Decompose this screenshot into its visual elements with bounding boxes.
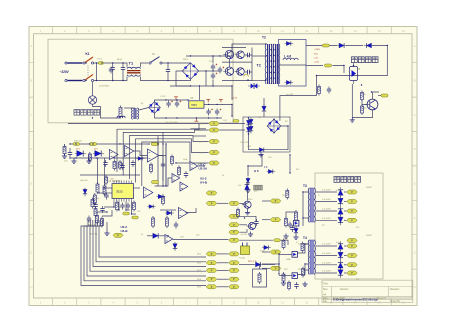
diode D15 bbox=[254, 262, 263, 267]
label K1 bbox=[86, 52, 90, 56]
wire bridge2 down bbox=[155, 113, 167, 118]
port mid-left 4 bbox=[209, 151, 219, 155]
svg-text:Drawn By:: Drawn By: bbox=[390, 300, 401, 303]
switch K2 contact b bbox=[160, 62, 162, 64]
label G 6 bbox=[254, 169, 259, 173]
text label 高压回路 (primary) bbox=[74, 110, 100, 116]
wire K2 to bridge bbox=[162, 62, 191, 64]
diode D18 bbox=[267, 169, 276, 173]
port center col 2 bbox=[229, 214, 239, 218]
diode D25 up bbox=[245, 182, 250, 191]
wire bus v extra3 bbox=[165, 144, 167, 186]
diode D23 bbox=[165, 211, 174, 215]
wire fuse out bbox=[104, 62, 125, 64]
diode output T3 4 bbox=[338, 215, 343, 225]
port bundle right 1 bbox=[229, 252, 239, 256]
wire bridge B1 neg bbox=[176, 71, 182, 86]
wire csnub top bbox=[167, 63, 169, 67]
wire out a3 bbox=[316, 210, 337, 212]
resistor R34 vertical bbox=[318, 85, 321, 96]
resistor R54 on wire bbox=[233, 120, 239, 123]
ground mid 2 bbox=[86, 159, 91, 164]
capacitor C25 bbox=[131, 160, 135, 167]
value label +15V bbox=[314, 62, 320, 64]
svg-text:0.1u 400V: 0.1u 400V bbox=[322, 253, 331, 255]
resistor R26 vertical bbox=[258, 272, 261, 284]
ground center bbox=[245, 188, 250, 193]
resistor R35 vertical bbox=[282, 272, 285, 283]
ground u3 area bbox=[104, 231, 109, 236]
wire T2 top tap bbox=[232, 44, 266, 56]
wire out b4 port bbox=[344, 272, 347, 274]
wire bridge bottom rail bbox=[176, 85, 232, 87]
port bundle left 1 bbox=[206, 252, 217, 256]
terminal circle top bbox=[65, 62, 67, 64]
label A 6 bbox=[0, 0, 1, 1]
value drv5 bbox=[286, 259, 292, 261]
wire col e1 bbox=[262, 200, 270, 202]
diode D7 bbox=[337, 43, 346, 48]
wire nest 2 bbox=[123, 130, 208, 176]
wire bottom net b bbox=[263, 264, 275, 266]
port feedback bottom bbox=[113, 233, 123, 237]
svg-text:KBPC: KBPC bbox=[183, 59, 189, 61]
rectifier block box bbox=[279, 40, 307, 87]
wire mid left drop bbox=[64, 144, 66, 147]
scattered value 17 bbox=[366, 187, 373, 189]
svg-text:+15V: +15V bbox=[314, 62, 320, 64]
net name bundle 1 bbox=[197, 254, 202, 256]
wire shunt left bbox=[306, 65, 323, 67]
wire matrix feed bbox=[263, 98, 265, 105]
wire mid rail long bbox=[68, 123, 209, 125]
wire bundle top 7 bbox=[99, 220, 102, 232]
wire sg left in2 bbox=[99, 192, 112, 194]
wire drop to sg a bbox=[97, 158, 99, 184]
op-amp U4-C bbox=[180, 182, 188, 191]
resistor R37 vertical bbox=[295, 210, 298, 222]
resistor R23 vertical bbox=[166, 216, 169, 228]
scattered value 14 bbox=[321, 282, 323, 284]
port bundle left 3 bbox=[206, 268, 217, 272]
resistor R30 bbox=[322, 44, 329, 47]
svg-text:Jun 4R7: Jun 4R7 bbox=[286, 94, 294, 96]
diode D10 bbox=[246, 119, 250, 128]
wire T3 tap2 bbox=[303, 217, 309, 219]
diode D24 bottom bbox=[151, 233, 161, 238]
ground matrix bbox=[258, 152, 263, 157]
svg-text:10k: 10k bbox=[238, 185, 241, 187]
label TL431 bbox=[239, 258, 246, 260]
net out a4 bbox=[322, 218, 331, 220]
transient suppressor VD1 bbox=[248, 83, 260, 89]
wire lamp down bbox=[93, 104, 121, 118]
wire bottom loop bbox=[253, 269, 267, 287]
net out a1 bbox=[322, 190, 331, 192]
wire rm net bbox=[286, 212, 296, 219]
zener diode ZD1 bbox=[75, 151, 86, 157]
label U2-2b bbox=[200, 177, 207, 181]
svg-text:Sheet of: Sheet of bbox=[377, 297, 386, 300]
value t1a bbox=[117, 59, 123, 61]
svg-text:0.1u 400V: 0.1u 400V bbox=[322, 199, 331, 201]
diode output T4 4 bbox=[338, 268, 343, 278]
wire bus v extra1 bbox=[157, 136, 159, 186]
capacitor C20 bbox=[174, 222, 178, 229]
net name bundle 4 bbox=[197, 279, 202, 281]
wire fb loop bbox=[148, 143, 151, 145]
wire bundle top 6 bbox=[96, 220, 100, 232]
svg-text:3525: 3525 bbox=[116, 190, 123, 194]
svg-text:D: D bbox=[414, 147, 416, 151]
net out b4 bbox=[322, 271, 331, 273]
net name mid 4 bbox=[199, 152, 204, 154]
label T3 bbox=[303, 184, 307, 188]
sub-circuit box: output high-voltage loop bbox=[315, 173, 383, 279]
wire bundle top 2 bbox=[84, 220, 90, 232]
wire bottom net a bbox=[239, 264, 254, 266]
svg-text:FR307: FR307 bbox=[366, 235, 373, 237]
transistor Q5 bbox=[292, 273, 297, 279]
capacitor C22 bbox=[288, 222, 292, 229]
wire opamp link bbox=[134, 151, 148, 156]
diode D14 bbox=[83, 188, 87, 197]
wire strip out2 bbox=[165, 144, 167, 186]
power port VCC bbox=[206, 99, 210, 102]
net out a3 bbox=[322, 209, 331, 211]
capacitor CX2 bbox=[109, 67, 113, 74]
capacitor C7 bbox=[215, 109, 221, 116]
resistor R2 vertical bbox=[119, 106, 122, 119]
capacitor C13 bbox=[327, 87, 331, 94]
title block bbox=[322, 280, 413, 303]
wire q1 q2 link bbox=[229, 59, 231, 67]
wire lamp loop bbox=[92, 82, 94, 96]
wire out a2 port bbox=[344, 201, 347, 203]
wire bundle top 3 bbox=[87, 220, 93, 232]
wire cx1 bottom bbox=[112, 72, 114, 81]
transformer T3 core bar bbox=[310, 188, 314, 222]
transformer T3 bbox=[308, 188, 315, 222]
resistor R20 vertical bbox=[162, 195, 165, 206]
value u4d3 bbox=[196, 235, 200, 237]
value q1 bbox=[232, 53, 238, 55]
diode D6 bbox=[285, 80, 294, 84]
wire bundle 6 bbox=[96, 232, 206, 262]
resistor R32 vertical bbox=[361, 91, 364, 102]
value gnd10k bbox=[80, 180, 88, 182]
wire matrix in1 bbox=[220, 123, 246, 125]
port bundle right 4 bbox=[229, 277, 239, 281]
resistor R31 bbox=[325, 64, 332, 67]
value drv4 bbox=[298, 269, 302, 271]
capacitor C14 bbox=[68, 150, 72, 157]
wire out b1 bbox=[316, 245, 337, 247]
diode D12 bbox=[258, 148, 267, 152]
svg-text:+310V: +310V bbox=[314, 49, 321, 51]
wire center drop bbox=[248, 155, 262, 176]
wire out b3 bbox=[316, 264, 337, 266]
wire mains bottom bbox=[67, 80, 82, 82]
scattered value 2 bbox=[258, 117, 261, 119]
wire matrix right bbox=[266, 126, 288, 150]
wire out b4 bbox=[316, 272, 337, 274]
svg-text:4n 10k: 4n 10k bbox=[241, 234, 247, 236]
label T2 bbox=[257, 63, 261, 67]
op-amp U1-D bbox=[190, 162, 198, 171]
port mid-left 2 bbox=[209, 128, 219, 132]
transistor Q7 bbox=[246, 222, 255, 230]
net name mid 3 bbox=[199, 141, 204, 143]
ground sensor bbox=[350, 117, 355, 122]
wire bundle 3 bbox=[87, 232, 206, 276]
label L1 4.6 bbox=[284, 55, 291, 59]
op-amp U4-A bbox=[172, 174, 180, 183]
wire mid rail top bbox=[70, 143, 150, 145]
svg-text:U4-B: U4-B bbox=[121, 229, 129, 233]
diode D21 bbox=[262, 245, 271, 249]
wire sg pin net4 bbox=[132, 202, 137, 215]
port col e 1 bbox=[270, 199, 281, 203]
label ~220V bbox=[60, 70, 70, 74]
wire bundle link 1 bbox=[217, 253, 229, 255]
port output b1 bbox=[347, 244, 357, 248]
port output b3 bbox=[347, 263, 357, 267]
resistor R53 vertical bbox=[119, 160, 122, 170]
svg-text:470u: 470u bbox=[209, 61, 213, 63]
svg-text:Gnd 10k: Gnd 10k bbox=[80, 180, 88, 182]
capacitor C17b bbox=[93, 202, 97, 209]
value b1 bbox=[183, 59, 189, 61]
diode D19 bbox=[136, 157, 144, 161]
ground mid 1 bbox=[71, 159, 76, 164]
value U3b bbox=[118, 207, 122, 209]
diode D3 bbox=[249, 118, 253, 127]
resistor R42 vertical bbox=[94, 207, 97, 218]
wire out b1 port bbox=[344, 245, 347, 247]
value c1 bbox=[209, 61, 213, 63]
wire nest 1 bbox=[117, 124, 199, 173]
resistor R50 vertical bbox=[288, 281, 291, 291]
wire col e2 bbox=[262, 219, 270, 221]
svg-text:Revision: Revision bbox=[390, 288, 400, 291]
svg-text:T2: T2 bbox=[257, 63, 261, 67]
scattered value 12 bbox=[322, 225, 325, 227]
scattered value 18 bbox=[366, 235, 373, 237]
net out a2 bbox=[322, 199, 331, 201]
svg-text:B: B bbox=[31, 78, 33, 82]
wire bundle 2 bbox=[84, 232, 206, 281]
wire sg pin net1 bbox=[104, 202, 114, 208]
svg-text:G: G bbox=[414, 250, 416, 254]
port bundle right 2 bbox=[229, 261, 239, 265]
port center col 1 bbox=[229, 201, 239, 205]
wire q6 down bbox=[247, 208, 249, 210]
wire d7 to d8 bbox=[346, 45, 363, 47]
wire T1 top out bbox=[141, 63, 149, 67]
text label 焊接回路 bbox=[352, 57, 379, 63]
ground mid 4 bbox=[62, 154, 67, 159]
value +15V a bbox=[232, 98, 238, 100]
wire cx2 bottom bbox=[122, 72, 124, 81]
wire out b2 bbox=[316, 255, 337, 257]
diode output T4 1 bbox=[338, 241, 343, 251]
wire cx1 top bbox=[112, 63, 114, 65]
value under box bbox=[286, 94, 294, 96]
transistor Q4 bbox=[292, 252, 297, 258]
wire opamp u4 net bbox=[155, 178, 173, 186]
value r5 bbox=[244, 56, 247, 58]
bridge rectifier B1 bbox=[182, 63, 198, 79]
svg-text:T3: T3 bbox=[303, 184, 307, 188]
svg-text:A: A bbox=[31, 44, 33, 48]
wire u1d in bbox=[176, 162, 190, 164]
wire out a3 port bbox=[344, 210, 347, 212]
resistor R41 vertical bbox=[91, 198, 94, 209]
wire bundle 1 bbox=[81, 232, 206, 286]
transistor Q8 bbox=[294, 220, 299, 226]
capacitor C19 bbox=[126, 203, 130, 210]
wire d21 net bbox=[240, 239, 274, 241]
wire nest 3 bbox=[129, 136, 208, 179]
potentiometer RP1 bbox=[254, 185, 263, 190]
wire q45 base rail bbox=[278, 254, 280, 274]
wire to C3 bbox=[213, 70, 220, 72]
wire u2c out bbox=[185, 208, 196, 213]
svg-text:D: D bbox=[30, 147, 32, 151]
wire q6 up bbox=[247, 190, 249, 201]
resistor R43 bbox=[123, 212, 130, 215]
svg-text:H: H bbox=[30, 285, 32, 289]
wire bottom rail to bridge bbox=[148, 79, 191, 80]
svg-text:1k5 153: 1k5 153 bbox=[90, 234, 98, 236]
label values bottom bbox=[248, 261, 258, 263]
wire q7 net3 bbox=[240, 229, 248, 232]
label T2 top bbox=[262, 36, 266, 40]
port center col 5 bbox=[229, 238, 239, 242]
label T4 bbox=[303, 236, 307, 240]
value label C12 bbox=[314, 58, 319, 60]
value +5V b bbox=[264, 166, 268, 169]
port single mid2 bbox=[206, 201, 217, 205]
wire q vertical right bbox=[251, 48, 253, 82]
svg-text:C24 103: C24 103 bbox=[240, 142, 249, 144]
value u4d1 bbox=[141, 234, 143, 236]
wire q row1 mid bbox=[222, 61, 252, 63]
svg-text:0.1u 400V: 0.1u 400V bbox=[322, 218, 331, 220]
bridge rectifier B3 bbox=[267, 119, 281, 133]
net name mid 2 bbox=[199, 130, 204, 132]
capacitor C snub input bbox=[166, 67, 170, 74]
value sg2 bbox=[90, 234, 98, 236]
svg-text:0.1u 400V: 0.1u 400V bbox=[322, 209, 331, 211]
value c8 bbox=[236, 57, 240, 59]
transistor Q3 bbox=[365, 99, 378, 110]
resistor R17 vertical bbox=[96, 182, 99, 194]
net out b3 bbox=[322, 262, 331, 264]
text label 高压回路 (output) bbox=[334, 177, 361, 183]
inductor L2 output bbox=[283, 58, 298, 60]
capacitor C27 bbox=[184, 171, 188, 178]
label r32b value bbox=[364, 108, 368, 110]
svg-text:Title: Title bbox=[323, 282, 328, 286]
wire lower net b bbox=[102, 210, 112, 216]
electrolytic capacitor C4 bbox=[166, 101, 172, 108]
svg-text:G: G bbox=[30, 250, 32, 254]
svg-text:100k: 100k bbox=[183, 159, 187, 161]
diode output T3 3 bbox=[338, 206, 343, 216]
wire bridge2 up bbox=[155, 100, 167, 102]
port col e 4 bbox=[270, 266, 281, 270]
wire matrix feed2 bbox=[263, 113, 265, 117]
capacitor C9 bbox=[245, 70, 252, 74]
diode D26 down bbox=[173, 242, 177, 251]
svg-text:U4-B: U4-B bbox=[200, 181, 208, 185]
svg-text:~220V: ~220V bbox=[60, 70, 70, 74]
wire port m link bbox=[217, 202, 228, 204]
svg-text:7815: 7815 bbox=[191, 103, 197, 107]
diode output T4 2 bbox=[338, 251, 343, 261]
wire drive to T4 bbox=[297, 264, 308, 275]
scattered value 5 bbox=[268, 157, 272, 159]
scattered value 16 bbox=[356, 279, 360, 281]
port mid-left 5 bbox=[209, 161, 219, 165]
switch K1 pole A bbox=[83, 57, 94, 64]
svg-text:FR307: FR307 bbox=[366, 187, 373, 189]
value aux1 bbox=[141, 103, 144, 105]
port col e 3 bbox=[270, 250, 281, 254]
value U3a bbox=[96, 198, 99, 200]
value drv2 bbox=[298, 244, 302, 246]
svg-text:File:: File: bbox=[323, 301, 328, 303]
wire bundle link 5 bbox=[217, 286, 229, 288]
port bundle left 4 bbox=[206, 277, 217, 281]
value U3c bbox=[137, 211, 141, 213]
wire u4d out rail bbox=[173, 238, 229, 240]
wire T1 bottom in bbox=[125, 77, 127, 81]
transformer T2 primary bbox=[265, 44, 272, 84]
wire col e3 bbox=[262, 251, 270, 253]
resistor R16 vertical bbox=[150, 163, 153, 174]
wire r32 to q3 bbox=[362, 100, 367, 105]
svg-text:1k: 1k bbox=[364, 94, 366, 96]
ground q6 bbox=[245, 210, 250, 215]
port output b4 bbox=[347, 271, 357, 275]
transistor Q6 bbox=[242, 201, 251, 209]
transformer T2 secondary bbox=[273, 44, 280, 84]
wire drive to T3 bbox=[297, 244, 308, 253]
op-amp U2-C bbox=[179, 208, 188, 219]
net name bundle 3 bbox=[197, 270, 202, 272]
border zone tick marks vertical bbox=[29, 63, 417, 269]
wire nest 5 bbox=[142, 142, 209, 186]
wire sg left in1 bbox=[104, 187, 112, 189]
wire r33 stub bbox=[378, 95, 381, 97]
capacitor C28 bbox=[254, 219, 258, 226]
svg-text:B: B bbox=[414, 78, 416, 82]
label U4-B bbox=[121, 229, 129, 233]
label transformer io bbox=[99, 86, 109, 88]
sub-circuit box: mains/high-voltage primary loop bbox=[48, 39, 233, 123]
value label d bbox=[336, 190, 341, 192]
value label +310V bbox=[314, 49, 321, 51]
port bundle left 5 bbox=[206, 285, 217, 289]
capacitor C24 bbox=[120, 163, 124, 170]
svg-text:G 6: G 6 bbox=[254, 169, 259, 173]
wire bus v extra2 bbox=[162, 132, 164, 186]
resistor R18 vertical bbox=[103, 184, 106, 196]
value u1d bbox=[183, 159, 187, 161]
